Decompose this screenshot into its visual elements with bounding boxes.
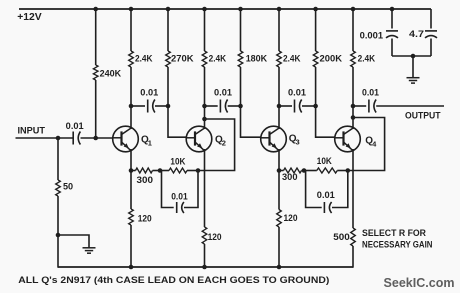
resistor R 300 (pair2) <box>284 168 302 173</box>
node rail-2.4K-4 <box>351 7 356 12</box>
wire decoupling ground lead <box>412 56 414 78</box>
node rail-200K <box>313 7 318 12</box>
svg-text:180K: 180K <box>246 54 268 64</box>
wire 10K to node B1 <box>187 170 198 172</box>
wire +12V supply rail <box>19 8 431 10</box>
wire input cap to Q1 base <box>81 137 113 139</box>
wire 2.4K-4 upper lead <box>352 9 354 51</box>
svg-text:0.01: 0.01 <box>214 88 232 98</box>
wire output lead <box>376 105 444 107</box>
svg-text:120: 120 <box>208 232 222 242</box>
node B1 <box>196 168 201 173</box>
wire 10K to node B2 <box>337 170 348 172</box>
wire Q3 collector <box>278 67 280 129</box>
svg-text:10K: 10K <box>170 157 185 167</box>
wire Q1 120 lower lead <box>130 225 132 267</box>
node B2 <box>346 168 351 173</box>
wire 200K lower lead <box>315 67 317 106</box>
node rail-2.4K-2 <box>202 7 207 12</box>
svg-text:1: 1 <box>148 139 152 148</box>
svg-text:240K: 240K <box>100 69 122 79</box>
resistor R 50 <box>56 180 61 196</box>
wire Q3 emitter lead <box>278 149 280 171</box>
node Q2 collector feedback tap <box>202 117 207 122</box>
svg-text:NECESSARY GAIN: NECESSARY GAIN <box>362 240 433 250</box>
capacitor C 4.7 decoupling <box>425 30 437 32</box>
wire Q3 120 upper lead <box>278 171 280 210</box>
svg-text:300: 300 <box>282 172 298 182</box>
wire 4.7 upper lead <box>430 9 432 29</box>
node Q4 collector feedback tap <box>351 115 356 120</box>
capacitor C-in 0.01 <box>72 132 74 145</box>
resistor R 10K (pair1) <box>169 168 187 173</box>
svg-text:300: 300 <box>137 175 154 185</box>
resistor R 200K <box>313 51 318 67</box>
resistor R 10K (pair2) <box>317 168 338 173</box>
wire feedback B1 to Q2 collector <box>198 119 235 171</box>
wire Q1 120 upper lead <box>130 171 132 210</box>
wire 300 to node A1 <box>153 170 161 172</box>
wire emitter to 300 <box>131 170 136 172</box>
wire C2 bypass loop right (pair1) <box>184 171 198 208</box>
wire coupling cap2 right <box>228 105 241 107</box>
wire 2.4K-3 upper lead <box>278 9 280 51</box>
node Q4 collector-cap <box>351 104 356 109</box>
resistor R 2.4K collector Q3 <box>277 51 282 67</box>
node cap2-180K <box>238 104 243 109</box>
wire decoupling bottom <box>392 55 431 57</box>
svg-text:SELECT R FOR: SELECT R FOR <box>362 228 426 238</box>
svg-text:0.001: 0.001 <box>360 31 384 41</box>
wire Q2 base drop <box>168 106 186 137</box>
wire coupling cap1 left <box>131 105 145 107</box>
svg-text:2: 2 <box>222 139 226 148</box>
svg-text:+12V: +12V <box>17 11 42 23</box>
resistor R 300 (pair1) <box>136 168 153 173</box>
wire coupling cap1 right <box>155 105 168 107</box>
svg-text:2.4K: 2.4K <box>358 54 376 64</box>
node Q1 collector-cap <box>129 104 134 109</box>
transistor Q1 2N917 <box>113 126 139 152</box>
wire Q2 collector <box>204 67 206 129</box>
resistor R 2.4K collector Q4 <box>351 51 356 67</box>
svg-text:INPUT: INPUT <box>18 126 46 136</box>
svg-text:120: 120 <box>138 214 152 224</box>
transistor Q3 2N917 <box>261 126 287 152</box>
wire 240K lower lead <box>95 80 97 138</box>
transistor Q2 2N917 <box>186 126 212 152</box>
node 120-1 ground <box>129 265 134 270</box>
node Q1 emitter <box>129 168 134 173</box>
wire coupling cap3 left <box>279 105 292 107</box>
node Q2 collector-cap <box>202 104 207 109</box>
node cap3-200K <box>313 104 318 109</box>
wire 200K upper lead <box>315 9 317 51</box>
resistor R 500 select <box>351 228 356 246</box>
node rail-0.001 <box>390 7 395 12</box>
wire 2.4K-2 upper lead <box>204 9 206 51</box>
ground left <box>83 247 96 249</box>
svg-text:0.01: 0.01 <box>317 190 335 200</box>
svg-text:0.01: 0.01 <box>140 88 158 98</box>
resistor R 270K <box>166 51 171 67</box>
svg-text:ALL Q's 2N917 (4th CASE LEAD O: ALL Q's 2N917 (4th CASE LEAD ON EACH GOE… <box>18 275 329 286</box>
wire A2 to 10K (pair2) <box>304 170 317 172</box>
node rail-270K <box>166 7 171 12</box>
svg-text:0.01: 0.01 <box>362 88 379 98</box>
wire coupling cap3 right <box>302 105 316 107</box>
node input-50 <box>56 136 61 141</box>
wire Q1 emitter lead <box>130 149 132 171</box>
svg-text:4: 4 <box>372 140 377 149</box>
node rail-240K <box>93 7 98 12</box>
svg-text:2.4K: 2.4K <box>135 54 153 64</box>
wire coupling cap2 left <box>205 105 218 107</box>
wire 0.001 upper lead <box>391 9 393 29</box>
wire A1 to 10K <box>160 170 169 172</box>
wire 0.001 lower lead <box>391 39 393 57</box>
resistor R 120 (Q3) <box>277 210 282 228</box>
wire 270K upper lead <box>167 9 169 51</box>
node rail-2.4K-3 <box>277 7 282 12</box>
svg-text:10K: 10K <box>317 156 332 166</box>
svg-text:OUTPUT: OUTPUT <box>405 111 441 121</box>
node A1 <box>158 168 163 173</box>
resistor R 120 (Q2) <box>202 227 207 244</box>
resistor R 240K <box>93 65 98 80</box>
node rail-180K <box>238 7 243 12</box>
svg-text:500: 500 <box>333 232 350 242</box>
wire emitter to 300 (pair2) <box>279 170 284 172</box>
svg-text:SeekIC.com: SeekIC.com <box>384 276 455 290</box>
capacitor C1 0.01 coupling <box>147 100 149 113</box>
node rail-2.4K-1 <box>129 7 134 12</box>
wire Q3 base drop <box>241 106 261 137</box>
wire 240K upper lead <box>95 9 97 65</box>
capacitor C 0.01 across 10K (pair2) <box>323 202 325 213</box>
wire Q4 500 lower lead <box>352 246 354 268</box>
resistor R 120 (Q1) <box>129 209 134 225</box>
wire 4.7 lower lead <box>430 39 432 57</box>
wire C bypass loop left (pair2) <box>306 171 322 208</box>
ground top right <box>407 77 420 79</box>
wire Q4 collector <box>352 67 354 129</box>
node A2 <box>302 168 307 173</box>
node decoupling ground tap <box>411 54 416 59</box>
svg-text:200K: 200K <box>320 54 343 64</box>
capacitor C3 0.01 coupling <box>294 100 296 113</box>
wire C2 bypass loop left (pair1) <box>162 171 174 208</box>
wire Q1 collector <box>130 67 132 129</box>
svg-text:3: 3 <box>296 138 300 147</box>
resistor R 2.4K collector Q2 <box>202 51 207 67</box>
wire Q2 120 lower lead <box>204 244 206 267</box>
svg-text:120: 120 <box>284 213 298 223</box>
svg-text:50: 50 <box>63 182 73 192</box>
node input-240K <box>93 136 98 141</box>
svg-text:0.01: 0.01 <box>66 121 84 131</box>
node 120-2 ground <box>202 265 207 270</box>
wire ground stub <box>58 235 89 248</box>
capacitor C2 0.01 coupling <box>219 100 221 113</box>
wire output cap left <box>353 105 366 107</box>
capacitor C 0.01 across 10K (pair1) <box>176 202 178 213</box>
node Q3 collector-cap <box>277 104 282 109</box>
node cap1-270K <box>166 104 171 109</box>
wire 50 bottom lead <box>57 196 59 268</box>
svg-text:0.01: 0.01 <box>288 88 306 98</box>
svg-text:0.01: 0.01 <box>171 192 188 202</box>
svg-text:270K: 270K <box>171 54 194 64</box>
wire feedback B2 to Q4 collector <box>348 118 385 171</box>
transistor Q4 2N917 <box>335 126 361 152</box>
capacitor C 0.001 decoupling <box>386 30 398 32</box>
resistor R 2.4K collector Q1 <box>129 51 134 67</box>
svg-text:2.4K: 2.4K <box>209 54 227 64</box>
wire 180K lower lead <box>240 67 242 106</box>
resistor R 180K <box>238 51 243 67</box>
wire 2.4K-1 upper lead <box>130 9 132 51</box>
node 50-ground stub <box>56 233 61 238</box>
wire ground rail <box>58 266 353 268</box>
node 120-3 ground <box>277 265 282 270</box>
svg-text:4.7: 4.7 <box>409 29 424 39</box>
wire 300 to node A2 <box>302 170 305 172</box>
node Q3 emitter <box>277 168 282 173</box>
wire Q4 emitter lead <box>352 149 354 228</box>
wire Q3 120 lower lead <box>278 227 280 267</box>
wire Q2 emitter lead <box>204 149 206 227</box>
svg-text:2.4K: 2.4K <box>283 54 301 64</box>
wire C bypass loop right (pair2) <box>332 171 348 208</box>
wire input lead <box>16 137 74 139</box>
wire 270K lower lead <box>167 67 169 106</box>
wire 180K upper lead <box>240 9 242 51</box>
capacitor C-out 0.01 <box>368 100 370 113</box>
wire Q4 base drop <box>316 106 335 137</box>
wire 50 top lead <box>57 138 59 180</box>
